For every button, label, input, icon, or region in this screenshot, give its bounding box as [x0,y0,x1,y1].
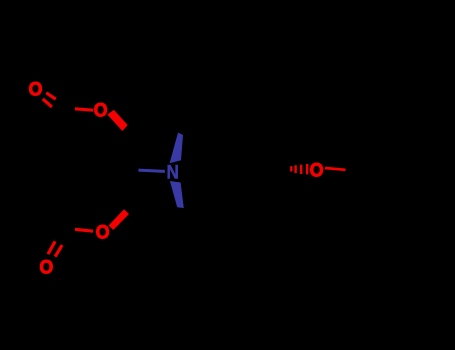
svg-text:O: O [96,221,110,243]
bond wedge N to C5 (lower blue wedge) [170,181,184,208]
svg-text:N: N [167,160,179,182]
bond wedge O2 to ring C2 (solid red wedge) [107,110,127,131]
bond hash wedge bar 2 (ring C3 to O5) [294,165,296,173]
bond C-O ester half-bond (top-left acetate) [75,109,93,110]
bond C-O ester half-bond (bottom-left acetate) [75,229,93,231]
bond wedge O3 to ring C4 (solid red wedge, bottom-left acetate) [109,209,129,230]
bond hash wedge bar 3 (ring C3 to O5) [300,165,303,174]
bond C=O double bond right stroke (bottom-left acetate) [55,245,62,257]
bond hash wedge bar 1 (ring C3 to O5) [290,166,292,171]
svg-text:O: O [40,256,54,278]
bond C=O double bond lower stroke (top-left acetate) [43,99,52,107]
bond wedge N to C1 (upper blue wedge) [170,133,183,164]
svg-text:O: O [310,159,324,181]
svg-text:O: O [29,78,43,100]
bond hash wedge bar 4 (ring C3 to O5) [306,164,308,174]
bond C=O double bond left stroke (bottom-left acetate) [48,241,55,254]
bond O5-CH2 half-bond (red) [325,168,346,170]
svg-text:O: O [94,99,108,121]
bond C=O double bond upper stroke (top-left acetate) [46,93,56,99]
bond N-CH3 half-bond (blue) [138,170,164,171]
